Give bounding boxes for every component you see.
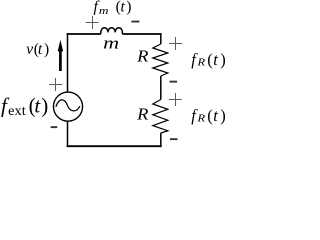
svg-text:R: R <box>136 46 148 65</box>
plus sign (source top) <box>49 78 62 91</box>
wire bottom rail <box>67 145 162 147</box>
plus sign (inductor left) <box>86 16 99 29</box>
wire right rail bottom lead <box>160 133 162 147</box>
voltage source sine symbol <box>56 100 80 111</box>
resistor R2 zigzag <box>153 100 168 134</box>
voltage source f_ext circle <box>53 92 82 121</box>
wire between resistors <box>160 76 162 100</box>
minus sign (R1 bottom) <box>170 81 178 83</box>
plus sign (R2 top) <box>169 93 182 106</box>
svg-text:m: m <box>103 34 119 53</box>
wire top rail left segment <box>67 33 101 35</box>
minus sign (source bottom) <box>51 126 58 128</box>
wire right rail top lead <box>160 33 162 44</box>
svg-text:fm(t): fm(t) <box>94 0 132 17</box>
inductor m (coil) <box>101 28 123 34</box>
arrow v(t) shaft <box>59 50 62 71</box>
svg-text:R: R <box>136 104 148 123</box>
plus sign (R1 top) <box>169 37 182 50</box>
minus sign (R2 bottom) <box>170 138 178 140</box>
wire top rail right segment <box>122 33 161 35</box>
arrow v(t) head <box>58 40 63 52</box>
svg-text:v(t): v(t) <box>26 41 49 58</box>
svg-text:fR(t): fR(t) <box>191 50 226 69</box>
svg-text:fext(t): fext(t) <box>1 94 48 118</box>
wire left rail top <box>67 33 69 92</box>
minus sign (inductor right) <box>131 21 139 23</box>
resistor R1 zigzag <box>153 44 168 76</box>
wire left rail bottom <box>67 121 69 147</box>
svg-text:fR(t): fR(t) <box>191 106 226 125</box>
